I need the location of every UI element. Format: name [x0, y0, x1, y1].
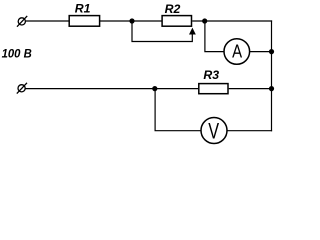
wire: node C down and across to voltmeter: [155, 89, 201, 131]
svg-text:V: V: [208, 119, 219, 144]
wire: R1 to R2: [100, 20, 162, 22]
resistor R2 (rheostat): [162, 16, 191, 27]
wire: right vertical side: [271, 20, 273, 131]
svg-text:R3: R3: [203, 68, 219, 82]
resistor R1: [69, 16, 99, 27]
resistor R3: [199, 84, 228, 94]
node C (junction dot on bottom wire): [152, 86, 157, 91]
svg-text:100 В: 100 В: [2, 46, 33, 61]
wire: R3 to right side: [229, 88, 272, 90]
terminal X1 (top input): [17, 16, 27, 27]
wire: node B down to ammeter: [205, 21, 224, 52]
wire: bottom terminal to R3: [25, 88, 198, 90]
wire: voltmeter to right side bottom corner: [227, 130, 272, 132]
node B (junction dot, right of R2): [202, 18, 207, 23]
node D (junction dot, ammeter to right wire): [269, 49, 274, 54]
wire: R2 to top-right corner: [192, 20, 272, 22]
svg-text:A: A: [232, 41, 243, 62]
svg-text:R1: R1: [75, 2, 91, 16]
voltmeter U2: [201, 118, 227, 144]
wire: top terminal to R1: [26, 20, 69, 22]
svg-text:R2: R2: [165, 2, 181, 16]
wire: ammeter to right side: [250, 51, 272, 53]
node E (junction dot, R3 wire to right side): [269, 86, 274, 91]
ammeter U1: [224, 39, 250, 65]
wire: R2 wiper bypass (node A down, across, up to arrow): [132, 21, 192, 42]
terminal X2 (bottom input): [17, 83, 27, 94]
node A (junction dot, left of R2): [129, 18, 134, 23]
wiper arrow of R2: [189, 28, 196, 35]
